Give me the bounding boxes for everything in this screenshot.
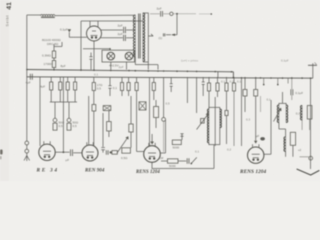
- wire: V4 anode: [264, 100, 271, 154]
- jack on earth line: [309, 156, 313, 160]
- coil L1 antenna coil: [41, 15, 55, 16]
- resistor R5: [67, 77, 69, 82]
- svg-text:2µF: 2µF: [157, 7, 162, 11]
- tube V1: [39, 141, 55, 160]
- capacitor C1 2uF: [101, 29, 123, 31]
- wire: vertical x187: [186, 77, 188, 103]
- capacitor C12 bars: [106, 150, 108, 154]
- terminal riser: [312, 63, 314, 78]
- svg-text:0,2: 0,2: [230, 80, 235, 84]
- resistor R27: [290, 132, 295, 145]
- resistor R14: [208, 77, 210, 83]
- svg-text:0,1: 0,1: [94, 73, 99, 77]
- wire: V4 grid feed: [255, 96, 257, 141]
- jack J1: [54, 102, 56, 118]
- svg-text:0,1: 0,1: [113, 86, 118, 90]
- plug arrow: [166, 34, 177, 36]
- wire: lamps to bus: [111, 62, 127, 70]
- bus B rail: [27, 77, 313, 78]
- resistor R2: [53, 58, 55, 61]
- svg-text:0,5: 0,5: [59, 124, 64, 128]
- resistor R24: [112, 151, 117, 155]
- crystal box X1: [103, 106, 111, 111]
- transformer T1 primary winding: [133, 15, 135, 57]
- resistor R4: [59, 77, 61, 82]
- svg-text:RE 34: RE 34: [37, 167, 59, 173]
- resistor R28: [307, 106, 312, 120]
- capacitor C11: [101, 113, 105, 153]
- scan mark bottom-left: [0, 150, 3, 155]
- capacitor C8: [202, 77, 205, 96]
- capacitor C7: [170, 77, 173, 92]
- svg-text:DRC 5Ω: DRC 5Ω: [47, 42, 59, 46]
- resistor R25: [244, 77, 246, 90]
- svg-text:0,2: 0,2: [227, 148, 232, 152]
- resistor R12: [153, 77, 155, 83]
- wire: speaker output line: [150, 13, 160, 15]
- lamp LP1: [107, 52, 115, 60]
- svg-text:Seibt: Seibt: [6, 15, 10, 27]
- resistor R17 small: [225, 111, 228, 116]
- transformer T1 secondary winding: [143, 13, 145, 61]
- svg-text:0,1: 0,1: [195, 150, 200, 154]
- svg-text:4µF: 4µF: [26, 81, 31, 85]
- capacitor C4 2uF: [161, 11, 163, 17]
- svg-text:5000: 5000: [169, 164, 176, 168]
- node speaker junction: [176, 13, 178, 15]
- wire: vertical x63: [62, 77, 64, 152]
- svg-text:0,1: 0,1: [221, 80, 226, 84]
- choke L2: [284, 137, 286, 152]
- tuning arrow T3: [274, 109, 282, 122]
- wire: transformer right side: [143, 13, 148, 70]
- resistor R18: [233, 77, 235, 83]
- node dot bus A end: [233, 77, 235, 79]
- svg-text:0,5: 0,5: [166, 102, 171, 106]
- svg-text:4µF: 4µF: [40, 85, 45, 89]
- transformer T3 primary: [277, 105, 279, 123]
- wire: y49 link: [83, 49, 110, 50]
- svg-text:0,3MΩ: 0,3MΩ: [42, 54, 52, 58]
- svg-text:RENS 1204: RENS 1204: [240, 169, 267, 175]
- svg-text:(1): (1): [159, 36, 163, 40]
- winding L3: [301, 106, 303, 121]
- svg-text:µF: µF: [256, 134, 260, 138]
- resistor R16: [226, 77, 228, 83]
- tube V3: [144, 143, 161, 162]
- capacitor blob: [260, 137, 265, 140]
- lamp LP2: [125, 52, 133, 60]
- svg-text:µF: µF: [66, 158, 70, 162]
- svg-text:2µF: 2µF: [119, 65, 124, 69]
- resistor R3: [50, 77, 52, 82]
- antenna plug arrow: [24, 156, 30, 162]
- svg-text:0,1: 0,1: [237, 80, 242, 84]
- bus A main HT rail: [27, 70, 234, 78]
- resistor R7 17ohm: [93, 77, 95, 83]
- wire: vertical x81 to bus: [80, 21, 82, 70]
- resistor R23: [129, 124, 133, 132]
- tube V4: [248, 144, 264, 163]
- tap tick: [148, 34, 153, 36]
- wire: vertical to V3 top: [149, 77, 151, 146]
- svg-text:5000: 5000: [173, 146, 180, 150]
- wire: top line coil to transformer: [55, 14, 134, 16]
- svg-text:(ω=) + µπνω: (ω=) + µπνω: [181, 59, 199, 63]
- wire: connector under R3-R6: [50, 101, 77, 103]
- jack circle: [170, 12, 173, 15]
- wire: speaker drop: [176, 14, 178, 35]
- capacitor C5 inline: [30, 74, 32, 80]
- tube V2: [82, 142, 98, 161]
- wire: V1 anode to coupling cap: [55, 151, 69, 153]
- capacitor C9: [187, 158, 189, 163]
- jack J2: [68, 102, 70, 118]
- resistor R8: [92, 105, 96, 112]
- svg-text:0,5: 0,5: [73, 124, 78, 128]
- wire: second top line: [81, 20, 143, 22]
- detector jack column: [163, 77, 165, 118]
- wire: V3 anode right: [160, 120, 165, 153]
- wire: transformer bottom lead: [135, 57, 158, 70]
- resistor R13 tall: [154, 107, 159, 118]
- svg-text:0,5: 0,5: [97, 87, 102, 91]
- grid cap diode arrow: [68, 29, 72, 32]
- ground earth symbol: [297, 169, 320, 175]
- svg-text:0,1µF: 0,1µF: [281, 59, 289, 63]
- resistor R1 0,3M: [54, 42, 62, 51]
- resistor R19 5000: [161, 160, 168, 162]
- svg-text:+2: +2: [298, 148, 302, 152]
- capacitor C3: [89, 53, 92, 70]
- wire: T2 top link: [209, 107, 220, 109]
- wire: left vertical from antenna coil to bus: [26, 15, 28, 77]
- wire: cathode return line: [152, 145, 214, 169]
- svg-text:0,3: 0,3: [246, 118, 251, 122]
- svg-text:0,5Ω: 0,5Ω: [121, 156, 128, 160]
- svg-text:REN 904: REN 904: [85, 169, 105, 174]
- antenna jack column: [26, 77, 28, 141]
- wire: earth drop: [310, 78, 312, 169]
- grid leak R21: [107, 122, 112, 131]
- resistor R22: [122, 148, 131, 153]
- wire: grid cap to tube U1: [69, 32, 87, 37]
- svg-text:0,1: 0,1: [267, 98, 272, 102]
- lamp box enclosure: [102, 50, 135, 62]
- wire: T3 bottom to choke: [279, 123, 293, 157]
- resistor R15: [217, 77, 219, 83]
- capacitor C6 0,1: [108, 77, 111, 96]
- svg-text:17000: 17000: [44, 62, 53, 66]
- wire: vertical to V2: [88, 96, 90, 145]
- transformer T2 secondary: [220, 109, 222, 128]
- grid cap arrow V4: [254, 141, 257, 144]
- svg-text:0,1: 0,1: [296, 112, 301, 116]
- svg-text:0,1µF: 0,1µF: [295, 91, 303, 95]
- wire: T2 core screen: [214, 97, 216, 146]
- wire: vertical x196: [196, 77, 198, 113]
- svg-text:2µF: 2µF: [118, 23, 123, 27]
- resistor R10: [128, 77, 130, 83]
- wire: R11 down to tube V3: [137, 91, 144, 152]
- resistor R20: [180, 134, 183, 138]
- svg-text:2µF: 2µF: [118, 32, 123, 36]
- resistor R9: [121, 77, 123, 83]
- paper background: [0, 0, 320, 181]
- wire: vertical x241.5: [241, 77, 243, 146]
- resistor R6: [74, 77, 76, 82]
- transformer T3 secondary: [286, 105, 288, 123]
- capacitor C2: [101, 37, 123, 39]
- svg-text:8µF: 8µF: [61, 64, 66, 68]
- grid cap arrow V3: [150, 142, 154, 145]
- node dot: [110, 151, 112, 153]
- crystal box X2: [139, 102, 146, 110]
- wire: antenna lead-in horizontal: [27, 14, 41, 16]
- switch arrow: [191, 157, 197, 163]
- wire: T3 top: [279, 92, 286, 105]
- transformer T1 core: [139, 14, 141, 59]
- bus B dots: [241, 77, 243, 79]
- capacitor C10 coupling: [71, 149, 73, 156]
- stub wires bus B right: [264, 78, 288, 85]
- transformer T2 primary: [207, 109, 208, 143]
- resistor R11: [136, 77, 138, 83]
- wire: vertical to tube V1 grid: [39, 77, 41, 146]
- terminal crossbar: [308, 64, 317, 66]
- svg-text:RENS 1204: RENS 1204: [136, 170, 160, 175]
- wire: vertical x260: [260, 96, 262, 112]
- capacitor C13: [291, 89, 293, 95]
- resistor R26: [255, 77, 257, 90]
- tuning arrow T2: [197, 114, 209, 130]
- svg-text:0,1µF: 0,1µF: [60, 28, 68, 32]
- wire: drop x217.9: [217, 72, 219, 78]
- potentiometer arrow: [117, 137, 128, 153]
- svg-text:41: 41: [6, 2, 13, 10]
- wire: T2 bottom: [209, 128, 220, 145]
- tube U1 rectifier (top): [87, 21, 102, 70]
- tiny box on arrow column: [201, 119, 205, 124]
